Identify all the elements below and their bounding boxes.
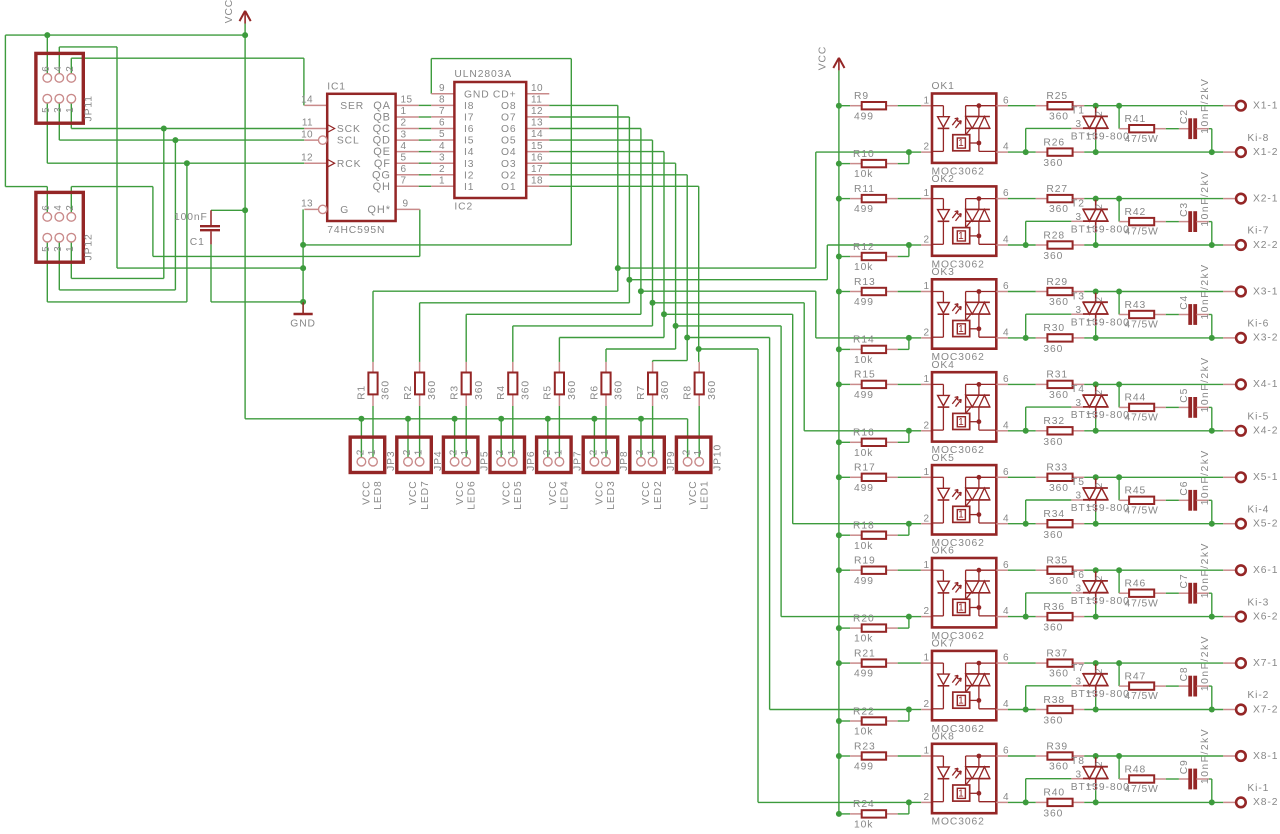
svg-text:R17: R17 — [854, 463, 876, 474]
svg-text:5: 5 — [41, 246, 52, 252]
svg-text:X1-1: X1-1 — [1253, 101, 1278, 112]
svg-text:4: 4 — [1003, 513, 1009, 524]
svg-text:1: 1 — [924, 374, 930, 385]
svg-text:11: 11 — [531, 95, 542, 106]
svg-text:360: 360 — [381, 380, 392, 400]
svg-text:VCC: VCC — [595, 480, 606, 504]
svg-text:T8: T8 — [1071, 756, 1085, 767]
svg-text:14: 14 — [301, 95, 313, 106]
svg-text:4: 4 — [53, 205, 64, 211]
svg-text:2: 2 — [1094, 575, 1104, 581]
svg-text:3: 3 — [53, 107, 64, 113]
svg-text:OK7: OK7 — [932, 639, 955, 650]
svg-text:R39: R39 — [1046, 741, 1068, 752]
svg-text:OK6: OK6 — [932, 546, 955, 557]
svg-text:Ki-1: Ki-1 — [1247, 783, 1269, 794]
svg-text:OK1: OK1 — [932, 81, 955, 92]
svg-text:MOC3062: MOC3062 — [932, 817, 985, 828]
svg-text:1: 1 — [693, 449, 704, 455]
svg-text:R19: R19 — [854, 556, 876, 567]
svg-text:4: 4 — [1003, 328, 1009, 339]
svg-text:R29: R29 — [1046, 277, 1068, 288]
svg-text:10k: 10k — [854, 820, 873, 831]
svg-text:X8-2: X8-2 — [1253, 797, 1278, 808]
svg-text:BT139-800: BT139-800 — [1071, 132, 1130, 143]
svg-text:10k: 10k — [854, 541, 873, 552]
svg-text:Ki-2: Ki-2 — [1247, 690, 1269, 701]
svg-text:VCC: VCC — [688, 480, 699, 504]
svg-text:360: 360 — [1043, 809, 1063, 820]
svg-text:O8: O8 — [501, 101, 517, 112]
svg-text:47/5W: 47/5W — [1125, 413, 1159, 424]
svg-text:360: 360 — [1043, 716, 1063, 727]
svg-text:13: 13 — [301, 199, 313, 210]
svg-text:6: 6 — [41, 205, 52, 211]
svg-text:BT139-800: BT139-800 — [1071, 689, 1130, 700]
svg-text:5: 5 — [41, 107, 52, 113]
svg-text:1: 1 — [65, 107, 76, 113]
svg-text:OK5: OK5 — [932, 453, 955, 464]
svg-text:LED2: LED2 — [653, 480, 664, 509]
svg-text:2: 2 — [1094, 389, 1104, 395]
svg-text:2: 2 — [65, 66, 76, 72]
svg-text:1: 1 — [958, 231, 964, 242]
svg-text:10k: 10k — [854, 448, 873, 459]
svg-text:1: 1 — [924, 560, 930, 571]
svg-text:LED6: LED6 — [466, 480, 477, 509]
svg-text:499: 499 — [854, 111, 874, 122]
svg-text:O6: O6 — [501, 124, 517, 135]
svg-text:3: 3 — [1076, 305, 1082, 316]
svg-text:1: 1 — [958, 603, 964, 614]
svg-text:BT139-800: BT139-800 — [1071, 317, 1130, 328]
svg-text:6: 6 — [439, 118, 445, 129]
svg-text:VCC: VCC — [224, 0, 235, 23]
svg-text:R32: R32 — [1043, 416, 1065, 427]
svg-text:2: 2 — [924, 699, 930, 710]
svg-text:LED8: LED8 — [373, 480, 384, 509]
svg-text:4: 4 — [401, 141, 407, 152]
svg-text:C9: C9 — [1179, 759, 1190, 774]
svg-text:2: 2 — [1094, 296, 1104, 302]
svg-text:360: 360 — [1049, 576, 1069, 587]
svg-text:2: 2 — [449, 449, 460, 455]
svg-text:47/5W: 47/5W — [1125, 134, 1159, 145]
svg-text:R14: R14 — [853, 335, 875, 346]
svg-text:SER: SER — [340, 101, 364, 112]
svg-text:10nF/2kV: 10nF/2kV — [1200, 356, 1211, 412]
svg-text:OK2: OK2 — [932, 174, 955, 185]
svg-text:C3: C3 — [1179, 202, 1190, 217]
svg-text:2: 2 — [588, 449, 599, 455]
svg-text:X2-1: X2-1 — [1253, 193, 1278, 204]
svg-text:X4-2: X4-2 — [1253, 426, 1278, 437]
svg-text:LED5: LED5 — [513, 480, 524, 509]
svg-text:LED1: LED1 — [699, 480, 710, 509]
svg-text:VCC: VCC — [455, 480, 466, 504]
svg-text:6: 6 — [1003, 653, 1009, 664]
svg-text:1: 1 — [924, 746, 930, 757]
svg-text:10k: 10k — [854, 169, 873, 180]
svg-text:15: 15 — [531, 141, 543, 152]
svg-text:2: 2 — [924, 420, 930, 431]
svg-text:499: 499 — [854, 483, 874, 494]
svg-text:1: 1 — [924, 95, 930, 106]
svg-text:R36: R36 — [1043, 602, 1065, 613]
svg-text:X7-1: X7-1 — [1253, 658, 1278, 669]
svg-text:VCC: VCC — [501, 480, 512, 504]
svg-text:C1: C1 — [190, 237, 205, 248]
svg-text:6: 6 — [1003, 467, 1009, 478]
svg-text:R22: R22 — [853, 706, 875, 717]
svg-text:C6: C6 — [1179, 481, 1190, 496]
svg-text:X5-2: X5-2 — [1253, 519, 1278, 530]
svg-text:VCC: VCC — [362, 480, 373, 504]
svg-text:1: 1 — [439, 176, 445, 187]
svg-text:R3: R3 — [450, 385, 461, 400]
svg-text:47/5W: 47/5W — [1125, 691, 1159, 702]
svg-text:R6: R6 — [589, 385, 600, 400]
svg-text:360: 360 — [1049, 390, 1069, 401]
svg-text:7: 7 — [401, 176, 407, 187]
svg-text:13: 13 — [531, 118, 543, 129]
svg-text:R11: R11 — [854, 184, 875, 195]
svg-text:360: 360 — [1043, 344, 1063, 355]
svg-text:2: 2 — [924, 142, 930, 153]
svg-text:360: 360 — [1049, 111, 1069, 122]
svg-text:360: 360 — [1043, 530, 1063, 541]
svg-text:17: 17 — [531, 164, 543, 175]
svg-text:3: 3 — [53, 246, 64, 252]
svg-text:R47: R47 — [1125, 671, 1147, 682]
svg-text:I4: I4 — [464, 147, 474, 158]
svg-text:Ki-5: Ki-5 — [1247, 412, 1269, 423]
svg-text:9: 9 — [403, 199, 409, 210]
svg-text:360: 360 — [1049, 483, 1069, 494]
svg-text:10nF/2kV: 10nF/2kV — [1200, 449, 1211, 505]
svg-text:6: 6 — [1003, 188, 1009, 199]
svg-text:1: 1 — [958, 696, 964, 707]
svg-text:X3-2: X3-2 — [1253, 333, 1278, 344]
svg-text:R24: R24 — [853, 799, 875, 810]
svg-text:X2-2: X2-2 — [1253, 240, 1278, 251]
svg-text:T5: T5 — [1071, 477, 1085, 488]
svg-text:16: 16 — [531, 152, 543, 163]
svg-text:R41: R41 — [1125, 114, 1147, 125]
svg-text:3: 3 — [1076, 677, 1082, 688]
svg-text:10nF/2kV: 10nF/2kV — [1200, 171, 1211, 227]
svg-text:OK3: OK3 — [932, 267, 955, 278]
svg-text:1: 1 — [647, 449, 658, 455]
svg-text:C5: C5 — [1179, 388, 1190, 403]
svg-text:10nF/2kV: 10nF/2kV — [1200, 728, 1211, 784]
svg-text:I2: I2 — [464, 170, 474, 181]
svg-text:JP10: JP10 — [712, 444, 723, 471]
svg-text:14: 14 — [531, 129, 543, 140]
svg-text:1: 1 — [924, 188, 930, 199]
svg-text:10nF/2kV: 10nF/2kV — [1200, 263, 1211, 319]
svg-text:18: 18 — [531, 176, 543, 187]
svg-text:360: 360 — [707, 380, 718, 400]
svg-text:X8-1: X8-1 — [1253, 751, 1278, 762]
svg-text:R48: R48 — [1125, 764, 1147, 775]
svg-text:1: 1 — [507, 449, 518, 455]
svg-text:R38: R38 — [1043, 695, 1065, 706]
svg-text:1: 1 — [460, 449, 471, 455]
svg-text:O7: O7 — [501, 113, 517, 124]
svg-text:2: 2 — [682, 449, 693, 455]
svg-text:R16: R16 — [853, 428, 875, 439]
svg-text:QH*: QH* — [367, 204, 390, 216]
svg-text:GND: GND — [290, 319, 316, 330]
svg-text:1: 1 — [958, 138, 964, 149]
svg-text:2: 2 — [1094, 761, 1104, 767]
svg-text:10nF/2kV: 10nF/2kV — [1200, 542, 1211, 598]
svg-text:QH: QH — [373, 181, 391, 193]
svg-text:R33: R33 — [1046, 463, 1068, 474]
svg-text:ULN2803A: ULN2803A — [454, 69, 512, 80]
svg-text:R31: R31 — [1046, 370, 1068, 381]
svg-text:47/5W: 47/5W — [1125, 505, 1159, 516]
svg-text:10k: 10k — [854, 634, 873, 645]
svg-text:R45: R45 — [1125, 486, 1147, 497]
svg-text:47/5W: 47/5W — [1125, 227, 1159, 238]
svg-text:1: 1 — [65, 246, 76, 252]
svg-text:C4: C4 — [1179, 295, 1190, 310]
svg-text:VCC: VCC — [817, 46, 828, 70]
svg-text:R15: R15 — [854, 370, 876, 381]
svg-text:360: 360 — [427, 380, 438, 400]
svg-text:5: 5 — [439, 129, 445, 140]
svg-text:4: 4 — [1003, 420, 1009, 431]
svg-text:3: 3 — [1076, 119, 1082, 130]
svg-text:BT139-800: BT139-800 — [1071, 503, 1130, 514]
svg-text:R44: R44 — [1125, 393, 1147, 404]
svg-text:360: 360 — [567, 380, 578, 400]
svg-text:3: 3 — [1076, 398, 1082, 409]
svg-text:O2: O2 — [501, 170, 517, 181]
svg-text:R34: R34 — [1043, 509, 1065, 520]
svg-text:2: 2 — [402, 449, 413, 455]
svg-text:R7: R7 — [636, 385, 647, 400]
svg-text:360: 360 — [614, 380, 625, 400]
svg-text:I6: I6 — [464, 124, 474, 135]
svg-text:1: 1 — [958, 417, 964, 428]
svg-text:BT139-800: BT139-800 — [1071, 596, 1130, 607]
svg-text:LED4: LED4 — [560, 480, 571, 509]
svg-text:I3: I3 — [464, 159, 474, 170]
svg-text:QE: QE — [373, 146, 391, 158]
svg-text:9: 9 — [439, 83, 445, 94]
svg-text:12: 12 — [301, 152, 313, 163]
svg-text:OK8: OK8 — [932, 732, 955, 743]
svg-text:3: 3 — [439, 152, 445, 163]
svg-text:VCC: VCC — [641, 480, 652, 504]
svg-text:R25: R25 — [1046, 91, 1068, 102]
svg-text:X6-2: X6-2 — [1253, 611, 1278, 622]
svg-text:R21: R21 — [854, 648, 876, 659]
svg-text:SCL: SCL — [337, 136, 360, 147]
svg-text:1: 1 — [958, 788, 964, 799]
svg-text:IC1: IC1 — [327, 81, 346, 92]
svg-text:499: 499 — [854, 204, 874, 215]
svg-text:T7: T7 — [1071, 663, 1085, 674]
svg-text:47/5W: 47/5W — [1125, 598, 1159, 609]
svg-text:R43: R43 — [1125, 300, 1147, 311]
svg-text:1: 1 — [924, 281, 930, 292]
svg-text:O1: O1 — [501, 182, 517, 193]
svg-text:C2: C2 — [1179, 109, 1190, 124]
svg-text:1: 1 — [958, 324, 964, 335]
svg-text:R42: R42 — [1125, 207, 1147, 218]
svg-text:2: 2 — [355, 449, 366, 455]
svg-text:2: 2 — [439, 164, 445, 175]
svg-text:2: 2 — [65, 205, 76, 211]
svg-text:1: 1 — [958, 510, 964, 521]
svg-text:Ki-3: Ki-3 — [1247, 597, 1269, 608]
svg-text:BT139-800: BT139-800 — [1071, 782, 1130, 793]
svg-text:X6-1: X6-1 — [1253, 565, 1278, 576]
svg-text:X4-1: X4-1 — [1253, 379, 1278, 390]
svg-text:R37: R37 — [1046, 648, 1068, 659]
svg-text:R9: R9 — [854, 91, 869, 102]
svg-text:OK4: OK4 — [932, 360, 955, 371]
svg-text:Ki-6: Ki-6 — [1247, 319, 1269, 330]
svg-text:1: 1 — [553, 449, 564, 455]
svg-text:10: 10 — [301, 129, 313, 140]
svg-text:4: 4 — [439, 141, 445, 152]
svg-text:I5: I5 — [464, 136, 474, 147]
svg-text:QC: QC — [373, 123, 391, 135]
svg-text:10k: 10k — [854, 262, 873, 273]
svg-text:JP11: JP11 — [84, 95, 95, 121]
svg-text:T6: T6 — [1071, 570, 1085, 581]
svg-text:360: 360 — [1043, 437, 1063, 448]
svg-text:2: 2 — [401, 118, 407, 129]
svg-text:2: 2 — [924, 606, 930, 617]
svg-text:VCC: VCC — [408, 480, 419, 504]
svg-text:10nF/2kV: 10nF/2kV — [1200, 635, 1211, 691]
svg-text:11: 11 — [302, 118, 313, 129]
svg-text:4: 4 — [53, 66, 64, 72]
svg-text:IC2: IC2 — [454, 202, 473, 213]
svg-text:3: 3 — [1076, 769, 1082, 780]
svg-text:2: 2 — [635, 449, 646, 455]
svg-text:499: 499 — [854, 669, 874, 680]
svg-text:2: 2 — [1094, 482, 1104, 488]
svg-text:O3: O3 — [501, 159, 517, 170]
svg-text:R2: R2 — [403, 385, 414, 400]
svg-text:6: 6 — [1003, 746, 1009, 757]
svg-text:R46: R46 — [1125, 579, 1147, 590]
svg-text:15: 15 — [401, 95, 413, 106]
svg-text:R20: R20 — [853, 613, 875, 624]
svg-text:JP12: JP12 — [84, 233, 95, 260]
svg-text:4: 4 — [1003, 792, 1009, 803]
svg-text:360: 360 — [1049, 297, 1069, 308]
svg-text:499: 499 — [854, 576, 874, 587]
svg-text:1: 1 — [414, 449, 425, 455]
svg-text:1: 1 — [924, 467, 930, 478]
svg-text:10k: 10k — [854, 355, 873, 366]
svg-text:R27: R27 — [1046, 184, 1068, 195]
svg-text:360: 360 — [1043, 251, 1063, 262]
svg-text:6: 6 — [41, 66, 52, 72]
svg-text:R8: R8 — [683, 385, 694, 400]
svg-text:BT139-800: BT139-800 — [1071, 410, 1130, 421]
svg-text:X5-1: X5-1 — [1253, 472, 1278, 483]
svg-text:R28: R28 — [1043, 230, 1065, 241]
svg-text:I7: I7 — [464, 113, 474, 124]
svg-text:X1-2: X1-2 — [1253, 147, 1278, 158]
svg-text:6: 6 — [401, 164, 407, 175]
svg-text:G: G — [340, 205, 349, 216]
svg-text:R18: R18 — [853, 521, 875, 532]
svg-text:C7: C7 — [1179, 574, 1190, 589]
svg-text:4: 4 — [1003, 606, 1009, 617]
svg-text:360: 360 — [1049, 762, 1069, 773]
svg-text:4: 4 — [1003, 142, 1009, 153]
svg-text:5: 5 — [401, 152, 407, 163]
svg-text:1: 1 — [600, 449, 611, 455]
svg-text:8: 8 — [439, 95, 445, 106]
svg-text:360: 360 — [1043, 623, 1063, 634]
svg-text:Ki-8: Ki-8 — [1247, 133, 1269, 144]
svg-text:C8: C8 — [1179, 666, 1190, 681]
svg-text:Ki-4: Ki-4 — [1247, 504, 1269, 515]
svg-text:SCK: SCK — [337, 124, 361, 135]
svg-text:360: 360 — [520, 380, 531, 400]
svg-text:100nF: 100nF — [174, 212, 208, 223]
svg-text:10: 10 — [531, 83, 543, 94]
svg-text:360: 360 — [1049, 204, 1069, 215]
svg-text:2: 2 — [1094, 203, 1104, 209]
svg-text:QF: QF — [374, 158, 391, 170]
svg-text:LED7: LED7 — [420, 480, 431, 509]
svg-text:2: 2 — [924, 792, 930, 803]
svg-text:BT139-800: BT139-800 — [1071, 224, 1130, 235]
svg-text:R30: R30 — [1043, 323, 1065, 334]
svg-text:R12: R12 — [853, 242, 875, 253]
svg-text:2: 2 — [1094, 668, 1104, 674]
svg-text:1: 1 — [367, 449, 378, 455]
svg-text:499: 499 — [854, 762, 874, 773]
svg-text:360: 360 — [660, 380, 671, 400]
svg-text:2: 2 — [924, 328, 930, 339]
svg-text:X7-2: X7-2 — [1253, 704, 1278, 715]
svg-text:3: 3 — [1076, 491, 1082, 502]
svg-text:3: 3 — [1076, 584, 1082, 595]
svg-text:R35: R35 — [1046, 556, 1068, 567]
svg-text:47/5W: 47/5W — [1125, 784, 1159, 795]
svg-text:O5: O5 — [501, 136, 517, 147]
svg-text:T4: T4 — [1071, 384, 1085, 395]
svg-text:R10: R10 — [853, 149, 875, 160]
svg-text:GND: GND — [464, 89, 490, 100]
svg-text:47/5W: 47/5W — [1125, 320, 1159, 331]
svg-text:2: 2 — [495, 449, 506, 455]
svg-text:10nF/2kV: 10nF/2kV — [1200, 78, 1211, 134]
svg-text:X3-1: X3-1 — [1253, 286, 1278, 297]
svg-text:RCK: RCK — [337, 159, 361, 170]
svg-text:T3: T3 — [1071, 291, 1085, 302]
svg-text:4: 4 — [1003, 699, 1009, 710]
svg-text:360: 360 — [474, 380, 485, 400]
svg-text:2: 2 — [1094, 110, 1104, 116]
svg-text:R40: R40 — [1043, 788, 1065, 799]
svg-text:499: 499 — [854, 390, 874, 401]
svg-text:R1: R1 — [356, 385, 367, 400]
